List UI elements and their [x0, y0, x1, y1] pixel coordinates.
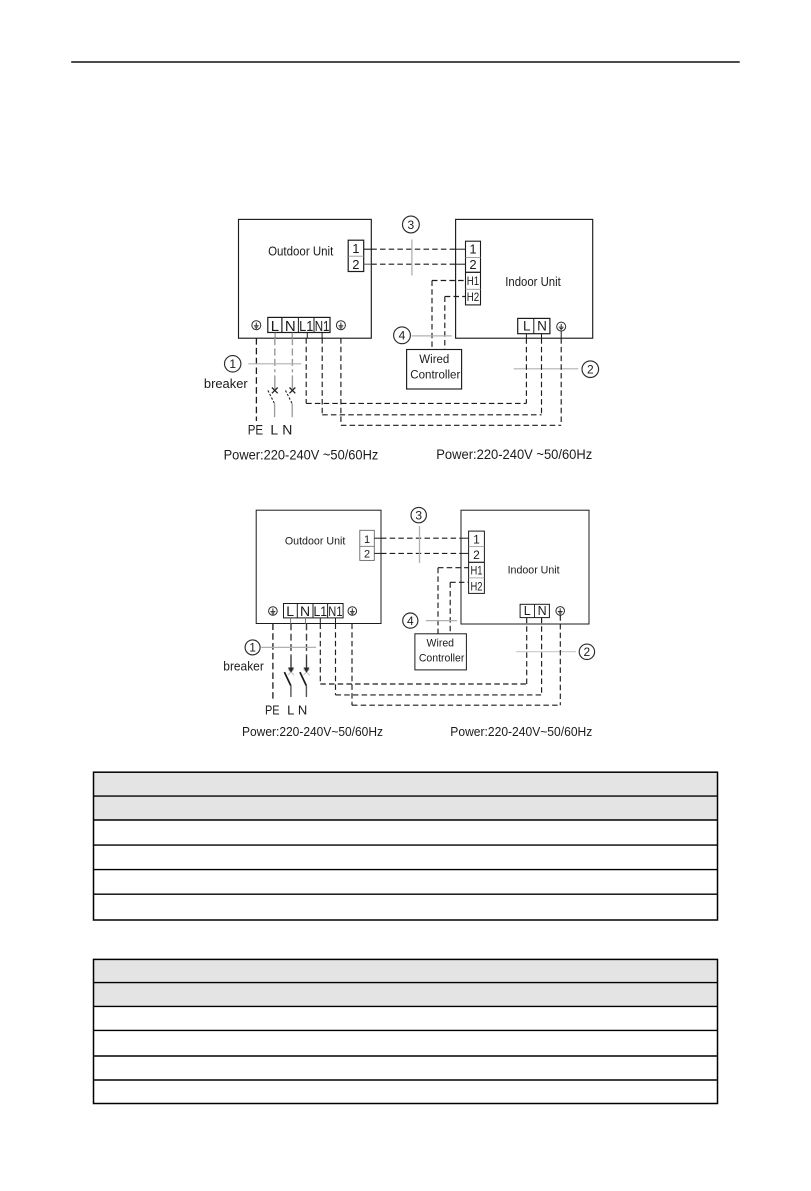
svg-text:breaker: breaker [204, 376, 248, 391]
svg-text:H2: H2 [471, 581, 483, 593]
svg-text:N: N [298, 702, 307, 717]
svg-text:L: L [524, 604, 531, 618]
svg-text:1: 1 [229, 357, 236, 371]
indoor terminal column 1/2/H1/H2 (diagram 2) [469, 531, 485, 593]
wire H2 to wired controller (diagram 2) [450, 581, 468, 583]
svg-text:3: 3 [415, 508, 422, 522]
outdoor ground terminal left (diagram 1) [252, 321, 261, 330]
svg-text:L1: L1 [299, 318, 313, 335]
wire 1: outdoor 1 to indoor 1 (diagram 2) [374, 537, 381, 539]
callout 3 tick mark (diagram 2) [419, 526, 421, 563]
svg-text:3: 3 [408, 218, 415, 232]
svg-text:H1: H1 [467, 274, 480, 288]
wire H1 to wired controller (diagram 2) [438, 567, 469, 569]
power wire L: indoor L to outdoor L1 (diagram 1) [525, 338, 527, 403]
wire 1: outdoor 1 to indoor 1 (diagram 1) [364, 248, 372, 250]
svg-text:L: L [523, 319, 531, 334]
callout circle 2 (diagram 2) [579, 644, 594, 659]
PE supply wire (diagram 2) [272, 624, 274, 702]
svg-text:1: 1 [473, 533, 480, 547]
svg-text:4: 4 [399, 329, 406, 343]
power wire ground: indoor ground to outdoor ground (diagram 1) [560, 338, 562, 425]
PE supply wire (diagram 1) [255, 338, 257, 421]
breaker pole N (diagram 2) [306, 624, 308, 656]
outdoor terminal strip L N L1 N1 (diagram 2) [284, 604, 344, 618]
svg-text:N1: N1 [328, 603, 342, 619]
callout 3 tick mark (diagram 1) [411, 240, 413, 276]
outdoor unit box (diagram 1) [239, 219, 372, 338]
table 2: outer border [94, 959, 718, 1103]
svg-text:N: N [285, 318, 296, 335]
wire H2 to wired controller (diagram 1) [445, 296, 466, 298]
svg-text:Controller: Controller [410, 370, 460, 382]
callout circle 2 (diagram 1) [582, 361, 599, 378]
callout circle 3 (diagram 1) [403, 216, 420, 233]
svg-text:2: 2 [473, 548, 480, 562]
svg-text:Wired: Wired [419, 354, 449, 366]
callout 2 leader line (diagram 1) [514, 368, 579, 370]
stubs under outdoor strip (diagram 1) [274, 333, 276, 339]
outdoor terminal strip L N L1 N1 (diagram 1) [268, 317, 330, 332]
svg-text:PE: PE [265, 702, 280, 717]
svg-text:Indoor Unit: Indoor Unit [505, 274, 561, 289]
svg-text:2: 2 [587, 363, 594, 377]
indoor ground terminal (diagram 1) [557, 322, 566, 331]
wire 2: outdoor 2 to indoor 2 (diagram 1) [364, 263, 372, 265]
power wire N: indoor N to outdoor N1 (diagram 1) [541, 338, 543, 415]
svg-text:1: 1 [249, 641, 256, 655]
callout 4 leader line (diagram 1) [412, 335, 452, 337]
svg-text:N: N [282, 421, 292, 437]
svg-text:L: L [271, 318, 279, 335]
svg-text:Wired: Wired [427, 637, 455, 649]
outdoor ground terminal right (diagram 2) [348, 607, 357, 616]
svg-text:breaker: breaker [223, 660, 263, 674]
callout circle 4 (diagram 1) [394, 327, 411, 344]
breaker pole L (diagram 2) [290, 624, 292, 656]
outdoor ground terminal left (diagram 2) [269, 607, 278, 616]
svg-text:2: 2 [469, 257, 476, 272]
outdoor ground terminal right (diagram 1) [336, 321, 345, 330]
wired controller box (diagram 2) [415, 634, 467, 670]
indoor terminal block L/N (diagram 2) [520, 604, 549, 617]
svg-text:Indoor Unit: Indoor Unit [508, 565, 560, 577]
callout circle 4 (diagram 2) [403, 613, 418, 628]
svg-text:L: L [270, 421, 278, 437]
svg-text:Power:220-240V ~50/60Hz: Power:220-240V ~50/60Hz [436, 446, 592, 462]
svg-text:L1: L1 [314, 603, 328, 619]
svg-text:Power:220-240V~50/60Hz: Power:220-240V~50/60Hz [242, 724, 383, 739]
wired controller box (diagram 1) [407, 350, 462, 390]
svg-text:Outdoor Unit: Outdoor Unit [285, 536, 346, 548]
top horizontal rule [71, 61, 740, 63]
breaker pole L (diagram 1) [274, 338, 276, 372]
svg-text:Controller: Controller [419, 653, 465, 665]
breaker pole N (diagram 1) [291, 338, 293, 372]
svg-text:PE: PE [248, 421, 263, 437]
svg-text:H1: H1 [471, 566, 483, 578]
table 2: row dividers [94, 982, 718, 984]
power wire ground (diagram 2) [559, 615, 561, 705]
power wire N: indoor N to outdoor N1 (diagram 2) [541, 618, 543, 695]
svg-text:1: 1 [469, 242, 476, 257]
wire H1 to wired controller (diagram 1) [432, 280, 466, 282]
svg-text:1: 1 [352, 241, 359, 256]
indoor terminal column 1/2/H1/H2 (diagram 1) [466, 241, 481, 305]
outdoor unit box (diagram 2) [256, 510, 381, 623]
table 1: header fill rows [94, 772, 718, 820]
power wire L: indoor L to outdoor L1 (diagram 2) [526, 618, 528, 684]
stub under indoor N (diagram 1) [541, 334, 543, 339]
svg-text:L: L [286, 603, 294, 619]
svg-text:2: 2 [352, 257, 359, 272]
indoor unit box (diagram 1) [456, 219, 593, 338]
svg-text:N: N [537, 319, 547, 334]
callout 4 leader line (diagram 2) [426, 620, 457, 622]
svg-text:2: 2 [584, 645, 591, 659]
outdoor terminal block 1/2 (diagram 1) [348, 240, 364, 271]
svg-text:2: 2 [364, 548, 370, 560]
callout 1 leader line (diagram 2) [261, 646, 316, 648]
wire 2: outdoor 2 to indoor 2 (diagram 2) [374, 552, 381, 554]
svg-text:Outdoor Unit: Outdoor Unit [268, 243, 334, 258]
stub under indoor ground (diagram 1) [560, 331, 562, 338]
svg-text:4: 4 [407, 614, 414, 628]
indoor unit box (diagram 2) [461, 510, 589, 624]
svg-text:N1: N1 [315, 318, 330, 335]
table 1: outer border [94, 772, 718, 920]
svg-text:N: N [538, 604, 547, 618]
callout circle 1 (diagram 1) [225, 356, 241, 372]
svg-text:Power:220-240V~50/60Hz: Power:220-240V~50/60Hz [450, 724, 592, 739]
indoor terminal block L/N (diagram 1) [518, 318, 550, 333]
callout circle 3 (diagram 2) [411, 507, 426, 522]
svg-text:N: N [300, 603, 310, 619]
svg-text:H2: H2 [467, 290, 480, 304]
svg-text:1: 1 [364, 534, 370, 546]
callout 2 leader line (diagram 2) [516, 651, 576, 653]
callout 1 leader line (diagram 1) [248, 363, 301, 365]
stubs under outdoor strip (diagram 2) [290, 618, 292, 624]
table 1: row dividers [94, 795, 718, 797]
stub under indoor L (diagram 1) [525, 334, 527, 339]
svg-text:Power:220-240V ~50/60Hz: Power:220-240V ~50/60Hz [224, 447, 379, 463]
outdoor terminal block 1/2 (diagram 2) [360, 530, 375, 560]
indoor ground terminal (diagram 2) [556, 607, 565, 616]
table 2: header fill rows [94, 959, 718, 1006]
svg-text:L: L [287, 702, 294, 717]
callout circle 1 (diagram 2) [245, 640, 260, 655]
